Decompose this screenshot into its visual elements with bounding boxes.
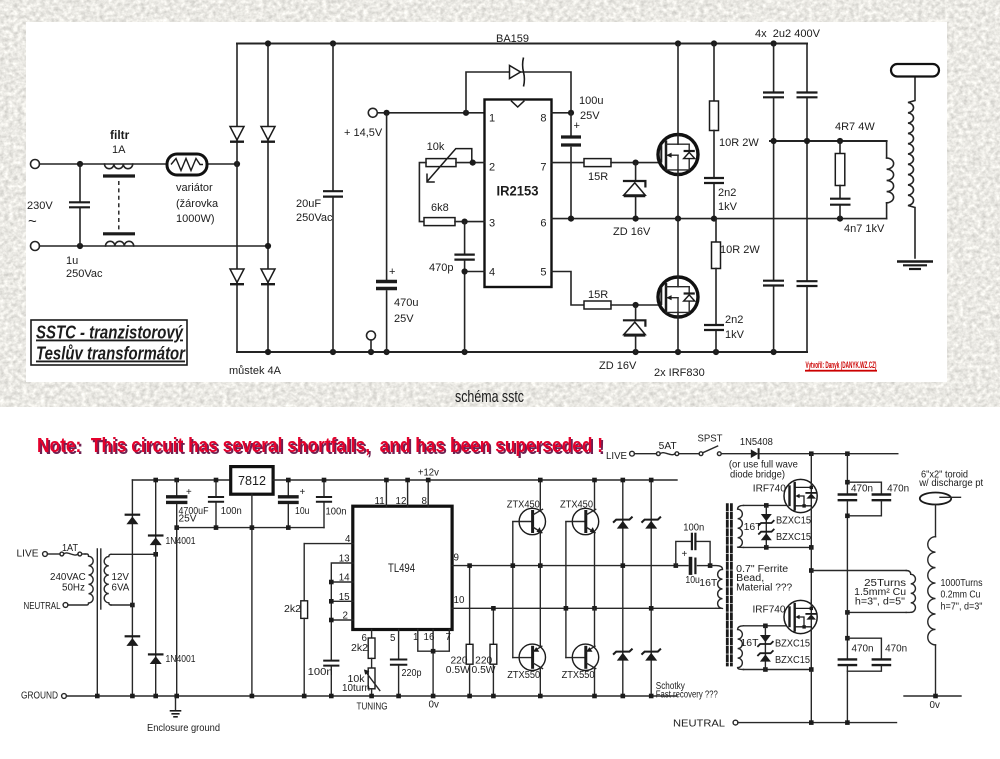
svg-text:6VA: 6VA xyxy=(112,583,130,594)
wire bridge column 1 xyxy=(236,44,238,353)
svg-text:12V: 12V xyxy=(112,572,130,583)
svg-text:BZXC15: BZXC15 xyxy=(775,639,811,650)
svg-text:BA159: BA159 xyxy=(496,33,529,45)
white panel of top schematic xyxy=(26,22,947,382)
wire gdt sec1 bottom xyxy=(744,546,812,548)
enclosure ground symbol xyxy=(175,698,177,710)
node pin2 xyxy=(470,160,476,166)
wire Q1 collector xyxy=(539,480,541,511)
wire pin7 to gate xyxy=(611,162,660,164)
svg-text:16T: 16T xyxy=(741,638,759,649)
capacitor 4700uF 25V xyxy=(176,480,178,495)
switch SPST xyxy=(699,452,703,456)
wire +12v rail xyxy=(273,479,677,481)
svg-text:10turn: 10turn xyxy=(342,683,370,694)
svg-text:230V: 230V xyxy=(27,200,53,212)
svg-text:10R 2W: 10R 2W xyxy=(719,137,759,149)
capacitors pin9 coupling: branch xyxy=(674,563,679,568)
mosfet Q1 IRF830 xyxy=(658,135,698,175)
capacitor 2n2 1kV bottom xyxy=(704,324,724,326)
node gate2 xyxy=(633,302,639,308)
wire pot left leg xyxy=(419,163,426,222)
capacitor 20uF 250Vac xyxy=(332,44,334,191)
terminal 230V neutral xyxy=(31,242,40,251)
node rail zenerA xyxy=(621,478,626,483)
capacitor 220p xyxy=(391,659,406,661)
GDT primary winding 16T xyxy=(710,566,722,609)
node neutral 470n column xyxy=(845,720,850,725)
node rail 4700uF xyxy=(174,478,179,483)
terminal neutral left xyxy=(63,603,68,608)
svg-text:TUNING: TUNING xyxy=(357,702,388,713)
svg-text:variátor: variátor xyxy=(176,182,213,194)
diode 1N5408 xyxy=(751,449,759,458)
wire Q1 emitter down xyxy=(539,533,541,566)
svg-text:SSTC - tranzistorový: SSTC - tranzistorový xyxy=(36,322,184,343)
svg-text:13: 13 xyxy=(339,554,350,565)
capacitor 100n (b) xyxy=(323,480,325,496)
svg-text:Material ???: Material ??? xyxy=(736,582,793,593)
svg-text:~: ~ xyxy=(28,213,37,230)
wire mosfet2 to neutral xyxy=(810,670,812,723)
wire fuse to transformer xyxy=(82,553,85,555)
svg-text:ZTX450: ZTX450 xyxy=(507,500,541,511)
transformer secondary (tesla) xyxy=(908,76,915,258)
svg-text:11: 11 xyxy=(375,496,385,507)
node mosfet1 source xyxy=(809,545,814,550)
diode D3 1N4001 xyxy=(126,635,139,637)
svg-text:BZXC15: BZXC15 xyxy=(776,516,812,527)
zener ZD 16V top xyxy=(635,163,637,181)
svg-text:16T: 16T xyxy=(699,578,717,589)
GDT secondary 1 xyxy=(738,505,744,547)
fuse 1AT xyxy=(60,552,64,556)
svg-text:470p: 470p xyxy=(429,262,453,274)
wire pin5 xyxy=(552,272,585,306)
wire pin 12 stub xyxy=(407,480,409,506)
transistor pair1 base column xyxy=(512,522,514,658)
zener pair B upper xyxy=(642,517,660,522)
svg-text:Enclosure ground: Enclosure ground xyxy=(147,723,220,734)
zener pair A upper xyxy=(614,517,632,522)
node top bus dots xyxy=(265,40,271,46)
svg-text:IRF740: IRF740 xyxy=(753,605,787,616)
node pin15 xyxy=(329,599,334,604)
node pin10 base column2 xyxy=(564,606,569,611)
node pin9 emitter xyxy=(538,563,543,568)
wire live to fuse xyxy=(47,553,60,555)
svg-text:220p: 220p xyxy=(402,668,423,679)
terminal 230V live xyxy=(31,160,40,169)
svg-text:+: + xyxy=(574,120,580,132)
node neutral-bridge xyxy=(265,243,271,249)
capacitor 100n (a) xyxy=(215,480,217,496)
wire rectifier column 1 xyxy=(131,480,133,696)
zener pair A lower xyxy=(614,649,632,654)
resistor 10R 2W bottom xyxy=(715,219,717,242)
svg-text:12: 12 xyxy=(396,496,407,507)
capacitor bank 2u2 column B xyxy=(806,44,808,92)
svg-text:470n: 470n xyxy=(851,484,873,495)
node rail 10u xyxy=(286,478,291,483)
node rail D2 xyxy=(153,478,158,483)
resistor 6k8 xyxy=(424,218,455,226)
capacitor 100u 25V xyxy=(570,113,572,135)
node pin1 BA159 branch xyxy=(463,110,469,116)
varistor (lamp) xyxy=(167,154,207,175)
svg-text:6: 6 xyxy=(540,218,546,230)
svg-text:8: 8 xyxy=(422,496,428,507)
node pin9 220 xyxy=(467,563,472,568)
diode D1 1N4001 xyxy=(126,514,139,516)
svg-text:5: 5 xyxy=(540,267,546,279)
svg-text:IRF740: IRF740 xyxy=(753,484,787,495)
svg-text:250Vac: 250Vac xyxy=(66,268,103,280)
svg-text:0v: 0v xyxy=(930,700,940,711)
svg-text:15: 15 xyxy=(339,592,350,603)
svg-text:ZTX550: ZTX550 xyxy=(507,670,541,681)
svg-text:4R7 4W: 4R7 4W xyxy=(835,121,875,133)
diode D4 1N4001 xyxy=(149,653,162,655)
potentiometer 10k xyxy=(426,159,456,167)
wire secondary bottom xyxy=(111,604,132,606)
node pin14 xyxy=(329,580,334,585)
svg-text:25V: 25V xyxy=(179,514,197,525)
svg-text:2n2: 2n2 xyxy=(718,187,736,199)
capacitor 100n coupling xyxy=(691,534,693,549)
node output xyxy=(809,568,814,573)
wire neutral input xyxy=(40,245,269,247)
wire regulator lower link xyxy=(177,527,324,529)
wire pin7 xyxy=(552,162,585,164)
node HV 470n column xyxy=(845,451,850,456)
wire gdt sec2 bottom xyxy=(744,669,812,671)
svg-text:1AT: 1AT xyxy=(62,543,78,554)
svg-text:100n: 100n xyxy=(683,523,704,534)
toroid discharge terminal xyxy=(891,64,939,77)
node rail 100n(b) xyxy=(322,478,327,483)
wire pin 5 column xyxy=(398,630,400,659)
coil 25 turns primary xyxy=(906,571,915,613)
svg-text:ZD 16V: ZD 16V xyxy=(599,360,637,372)
wire ground rail xyxy=(66,695,677,697)
node sec2 bottom zener xyxy=(763,667,768,672)
capacitor 4n7 1kV xyxy=(830,198,851,200)
svg-text:NEUTRAL: NEUTRAL xyxy=(24,601,61,612)
svg-text:100u: 100u xyxy=(579,95,603,107)
transistor pair2 base column xyxy=(565,522,567,658)
capacitor 470n pair lower xyxy=(846,612,848,658)
node pin10 zenerB xyxy=(649,606,654,611)
node lower 100n(a) xyxy=(214,525,219,530)
node mosfet2 source neutral xyxy=(809,667,814,672)
svg-text:15R: 15R xyxy=(588,171,608,183)
capacitor 2n2 1kV top xyxy=(704,177,724,179)
svg-text:10k: 10k xyxy=(427,141,445,153)
capacitor 100n (c) xyxy=(324,660,338,662)
terminal 0V bottom xyxy=(367,331,376,340)
wire to gate2 xyxy=(611,304,660,306)
wire pin 9 xyxy=(452,565,676,567)
node sec1 bottom zener xyxy=(764,545,769,550)
svg-text:470n: 470n xyxy=(885,644,907,655)
node bottom wire 4700uF xyxy=(174,525,179,530)
zener pair B lower xyxy=(642,649,660,654)
diode BA159 xyxy=(510,66,521,79)
node neutral mosfet column xyxy=(809,720,814,725)
mosfet Q2 IRF830 xyxy=(658,277,698,317)
node secondary top xyxy=(153,552,158,557)
wire tesla primary bottom xyxy=(847,611,906,613)
svg-text:+12v: +12v xyxy=(418,468,439,479)
wire half-bridge mid column xyxy=(810,547,812,669)
node rail pin8 xyxy=(426,478,431,483)
tesla secondary 1000 turns xyxy=(935,505,937,537)
wire pin 2 stub xyxy=(331,619,353,621)
svg-text:+: + xyxy=(389,266,395,278)
svg-text:1kV: 1kV xyxy=(718,201,738,213)
resistor 15R top xyxy=(584,159,611,167)
svg-text:3: 3 xyxy=(489,218,495,230)
wire pin2 xyxy=(456,162,485,164)
transistor Q3 ZTX550 xyxy=(519,644,545,670)
wire live input xyxy=(40,163,238,165)
wire top bus xyxy=(237,43,807,45)
svg-text:5AT: 5AT xyxy=(659,441,677,452)
svg-text:1: 1 xyxy=(489,113,495,125)
node pin9 base column xyxy=(511,563,516,568)
node pin8 xyxy=(568,110,574,116)
svg-text:2x IRF830: 2x IRF830 xyxy=(654,367,705,379)
IC IR2153 box xyxy=(485,100,552,288)
svg-text:Vytvořil: Danyk (DANYK.WZ.CZ): Vytvořil: Danyk (DANYK.WZ.CZ) xyxy=(806,360,877,371)
terminal live left xyxy=(43,552,48,557)
node rail zenerB xyxy=(649,478,654,483)
node gate1 xyxy=(633,160,639,166)
transistor Q4 ZTX550 xyxy=(572,644,598,670)
svg-text:ZD 16V: ZD 16V xyxy=(613,226,651,238)
wire pin 8 stub xyxy=(427,480,429,506)
svg-text:2k2: 2k2 xyxy=(351,643,368,654)
wire pin4 pulldown column xyxy=(303,544,305,601)
diode bridge D-c xyxy=(230,269,244,283)
node pin10 220 xyxy=(491,606,496,611)
svg-text:100n: 100n xyxy=(221,506,242,517)
svg-text:470u: 470u xyxy=(394,297,418,309)
svg-text:Teslův transformátor: Teslův transformátor xyxy=(36,343,186,364)
svg-text:ZTX550: ZTX550 xyxy=(562,670,596,681)
transistor Q2 ZTX450 xyxy=(572,508,598,534)
svg-text:1000Turns: 1000Turns xyxy=(941,578,983,589)
title box SSTC xyxy=(31,320,187,365)
terminal ground left xyxy=(62,694,67,699)
wires pins 1,16,7 xyxy=(418,630,450,652)
svg-text:Fast recovery ???: Fast recovery ??? xyxy=(656,690,718,701)
svg-text:100n: 100n xyxy=(308,667,333,678)
regulator 7812 xyxy=(231,467,273,495)
svg-text:1N5408: 1N5408 xyxy=(740,437,774,448)
wire pin 11 stub xyxy=(385,480,387,506)
node rail Q1 xyxy=(538,478,543,483)
node variator-bridge xyxy=(234,161,240,167)
svg-text:7: 7 xyxy=(446,632,451,643)
wire gdt sec1 top to gate xyxy=(744,504,788,506)
svg-text:2n2: 2n2 xyxy=(725,314,743,326)
svg-text:4n7 1kV: 4n7 1kV xyxy=(844,223,885,235)
capacitor 470p xyxy=(464,222,466,254)
wire pin 10 xyxy=(452,607,716,609)
svg-text:470n: 470n xyxy=(887,484,909,495)
node sec1 top zener xyxy=(764,503,769,508)
diode bridge D-a xyxy=(230,127,244,141)
svg-text:470n: 470n xyxy=(852,644,874,655)
ground 0v right xyxy=(904,695,961,697)
svg-text:20uF: 20uF xyxy=(296,198,321,210)
svg-text:2: 2 xyxy=(489,162,495,174)
svg-text:6k8: 6k8 xyxy=(431,202,449,214)
wire output top link xyxy=(770,140,887,142)
terminal +14,5V xyxy=(368,108,377,117)
wire Q3 collector down xyxy=(539,669,541,696)
node pin9 zenerA xyxy=(621,563,626,568)
diode bridge D-d xyxy=(261,269,275,283)
svg-text:2k2: 2k2 xyxy=(284,604,301,615)
svg-text:10u: 10u xyxy=(685,575,700,586)
node pin2 xyxy=(329,618,334,623)
wire BA159 loop xyxy=(466,72,571,113)
svg-text:4x 2u2 400V: 4x 2u2 400V xyxy=(755,28,821,40)
resistor 10R 2W top xyxy=(713,44,715,102)
svg-text:h=7", d=3": h=7", d=3" xyxy=(941,602,983,613)
TL494 box xyxy=(353,506,452,629)
transformer T1 core xyxy=(96,549,98,696)
svg-text:15R: 15R xyxy=(588,289,608,301)
textured border region around top schematic xyxy=(0,0,1000,407)
wire pin3 xyxy=(455,221,485,223)
wire 7812 ground pin xyxy=(251,494,253,696)
capacitor 1u 250Vac xyxy=(79,164,81,201)
node bottom bus dots xyxy=(265,349,271,355)
toroid 6x2 xyxy=(920,493,951,505)
svg-text:SPST: SPST xyxy=(698,434,723,445)
potentiometer 10k 10turn xyxy=(368,668,375,689)
svg-text:1: 1 xyxy=(413,632,418,643)
svg-text:NEUTRAL: NEUTRAL xyxy=(673,719,726,730)
wire pin4 xyxy=(465,271,485,273)
GDT secondary 2 xyxy=(738,626,744,670)
svg-text:LIVE: LIVE xyxy=(606,451,627,462)
node rail 100n(a) xyxy=(214,478,219,483)
capacitor 10u xyxy=(287,480,289,495)
capacitor 470n pair upper xyxy=(846,454,848,494)
svg-text:1u: 1u xyxy=(66,255,78,267)
inductor filter L1 (common mode choke) xyxy=(105,164,133,169)
svg-text:250Vac: 250Vac xyxy=(296,212,333,224)
svg-text:LIVE: LIVE xyxy=(17,549,39,560)
zener BZXC15 string 1 xyxy=(765,505,767,547)
terminal live right xyxy=(630,451,635,456)
diode D2 1N4001 xyxy=(149,534,162,536)
svg-text:0v: 0v xyxy=(429,700,439,711)
svg-text:10R 2W: 10R 2W xyxy=(720,244,760,256)
wire neutral xyxy=(738,722,897,724)
svg-text:BZXC15: BZXC15 xyxy=(775,655,811,666)
node sec2 top zener xyxy=(763,624,768,629)
node HV mosfet column xyxy=(508,0,510,1)
svg-text:TL494: TL494 xyxy=(388,561,415,575)
wire bottom bus xyxy=(237,351,807,353)
svg-text:1kV: 1kV xyxy=(725,329,745,341)
diode bridge D-b xyxy=(261,127,275,141)
transformer primary (tesla) xyxy=(886,141,888,158)
zener BZXC15 string 2 xyxy=(764,626,766,670)
wire pin 4 xyxy=(304,543,353,545)
svg-text:4: 4 xyxy=(345,534,351,545)
node tesla primary bottom xyxy=(845,610,850,615)
svg-text:50Hz: 50Hz xyxy=(62,583,85,594)
GDT core dashed xyxy=(726,505,729,665)
wire pin 15 stub xyxy=(331,600,353,602)
node coupling right xyxy=(708,563,713,568)
wire switch to diode xyxy=(721,453,751,455)
svg-text:h=3", d=5": h=3", d=5" xyxy=(855,596,906,607)
svg-text:ZTX450: ZTX450 xyxy=(560,500,594,511)
node pin10 emitter2 xyxy=(592,606,597,611)
svg-text:1000W): 1000W) xyxy=(176,213,215,225)
svg-text:0.5W: 0.5W xyxy=(446,665,471,676)
node live-cap junction xyxy=(77,161,83,167)
node 14.5V column xyxy=(384,110,390,116)
svg-text:+: + xyxy=(682,549,688,560)
mosfet IRF740 upper xyxy=(784,479,817,512)
svg-text:0.5W: 0.5W xyxy=(472,665,497,676)
wire Q3 emitter up xyxy=(539,566,541,647)
svg-text:1N4001: 1N4001 xyxy=(166,654,196,665)
fuse 5AT xyxy=(656,452,660,456)
node 7812 gnd lower wire xyxy=(250,525,255,530)
wire Q2 emitter down xyxy=(594,533,596,608)
wire Q4 collector down xyxy=(594,669,596,696)
svg-text:GROUND: GROUND xyxy=(21,691,58,702)
svg-text:w/ discharge pt: w/ discharge pt xyxy=(918,478,983,489)
node rail pin12 xyxy=(405,478,410,483)
svg-text:+ 14,5V: + 14,5V xyxy=(344,127,383,139)
wire Q2 collector xyxy=(594,480,596,512)
svg-text:25V: 25V xyxy=(394,313,414,325)
svg-text:Note: This circuit has severa: Note: This circuit has several shortfall… xyxy=(37,434,603,457)
svg-text:(žárovka: (žárovka xyxy=(176,198,219,210)
svg-text:IR2153: IR2153 xyxy=(497,184,539,199)
node lower 10u xyxy=(286,525,291,530)
resistor 220 0.5W (pin9) xyxy=(469,566,471,645)
svg-text:16T: 16T xyxy=(744,522,762,533)
wire rectifier column 2 xyxy=(155,480,157,696)
zener ZD 16V bottom xyxy=(635,305,637,320)
svg-text:2: 2 xyxy=(343,611,348,622)
resistor 2k2 (pin6) xyxy=(368,638,375,658)
wire live to fuse 5AT xyxy=(634,453,656,455)
pins 13,14,15,2 link column xyxy=(331,563,353,660)
wire pin8 stub xyxy=(552,112,572,114)
svg-text:10u: 10u xyxy=(295,506,310,517)
svg-text:filtr: filtr xyxy=(110,128,130,142)
svg-text:4: 4 xyxy=(489,267,495,279)
wire Q4 emitter up xyxy=(594,608,596,646)
wire bridge column 2 xyxy=(267,44,269,353)
zener column B xyxy=(650,480,652,696)
svg-text:1N4001: 1N4001 xyxy=(166,536,196,547)
svg-text:8: 8 xyxy=(540,113,546,125)
